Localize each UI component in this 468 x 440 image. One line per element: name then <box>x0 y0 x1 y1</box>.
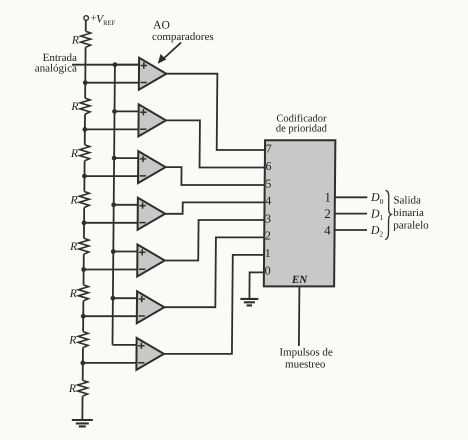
svg-text:R: R <box>68 383 76 395</box>
svg-text:AO: AO <box>153 20 170 32</box>
svg-text:Impulsos de: Impulsos de <box>279 347 333 359</box>
svg-text:R: R <box>69 241 77 253</box>
svg-text:3: 3 <box>265 211 271 225</box>
svg-text:2: 2 <box>265 229 271 243</box>
svg-text:0: 0 <box>265 264 271 278</box>
svg-text:paralelo: paralelo <box>393 219 429 231</box>
svg-text:R: R <box>71 34 79 46</box>
svg-text:5: 5 <box>265 176 271 190</box>
svg-text:1: 1 <box>265 246 271 260</box>
svg-text:7: 7 <box>266 141 272 155</box>
svg-text:1: 1 <box>324 190 331 205</box>
svg-text:R: R <box>68 335 76 347</box>
svg-text:de prioridad: de prioridad <box>276 124 328 135</box>
svg-text:R: R <box>69 195 77 207</box>
svg-text:comparadores: comparadores <box>152 31 214 43</box>
svg-text:4: 4 <box>265 194 271 208</box>
svg-text:2: 2 <box>324 206 331 221</box>
svg-text:R: R <box>70 101 78 113</box>
svg-text:4: 4 <box>324 222 331 237</box>
svg-text:Salida: Salida <box>393 195 421 207</box>
svg-text:analógica: analógica <box>35 63 77 75</box>
svg-text:binaria: binaria <box>393 207 424 219</box>
svg-text:R: R <box>69 288 77 300</box>
svg-text:R: R <box>70 148 78 160</box>
svg-text:EN: EN <box>291 274 308 286</box>
svg-text:muestreo: muestreo <box>285 359 326 371</box>
svg-text:6: 6 <box>265 159 271 173</box>
